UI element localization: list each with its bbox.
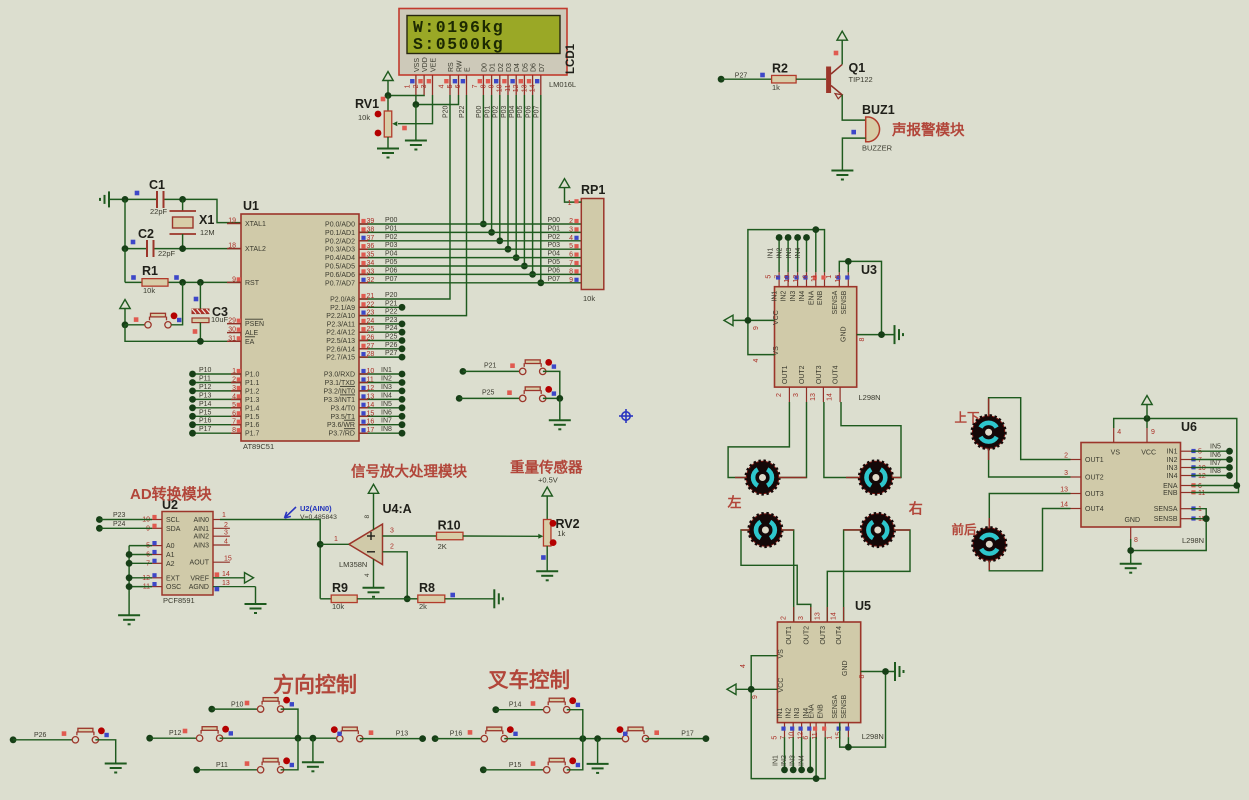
U3 OUT pin stubs bbox=[776, 387, 840, 402]
power terminal RP1 pin 1 bbox=[559, 179, 581, 207]
svg-text:IN1: IN1 bbox=[772, 291, 779, 302]
svg-text:6: 6 bbox=[803, 736, 810, 740]
ground for RV2 bbox=[536, 571, 558, 580]
svg-text:1: 1 bbox=[334, 536, 338, 543]
wire net P22 E bbox=[359, 95, 467, 316]
button P25 bbox=[459, 386, 563, 402]
svg-text:10k: 10k bbox=[583, 294, 595, 303]
svg-text:5: 5 bbox=[772, 736, 779, 740]
svg-text:4: 4 bbox=[364, 573, 371, 577]
svg-text:R2: R2 bbox=[772, 62, 788, 76]
wire C1 row bbox=[109, 196, 241, 223]
svg-text:P04: P04 bbox=[548, 251, 561, 258]
svg-text:AIN2: AIN2 bbox=[193, 534, 209, 541]
svg-text:P05: P05 bbox=[548, 259, 561, 266]
ground for forklift buttons bbox=[587, 739, 609, 773]
svg-text:10: 10 bbox=[784, 275, 791, 283]
motor right lower bbox=[861, 513, 895, 547]
button P11 bbox=[197, 738, 298, 773]
button P16 bbox=[435, 726, 625, 742]
svg-text:OUT3: OUT3 bbox=[816, 365, 823, 384]
svg-text:VCC: VCC bbox=[778, 678, 785, 693]
svg-text:OUT4: OUT4 bbox=[1085, 506, 1104, 513]
svg-text:P21: P21 bbox=[385, 300, 398, 307]
svg-text:P06: P06 bbox=[385, 267, 398, 274]
svg-text:P3.6/WR: P3.6/WR bbox=[327, 422, 355, 429]
U1 P0 port wires to RP1 bbox=[359, 217, 581, 225]
wire LCD D0 to net P00 bbox=[476, 95, 487, 227]
svg-text:3: 3 bbox=[1064, 470, 1068, 477]
svg-text:VS: VS bbox=[778, 649, 785, 659]
svg-text:声报警模块: 声报警模块 bbox=[891, 121, 965, 139]
svg-text:4: 4 bbox=[569, 235, 573, 242]
svg-text:X1: X1 bbox=[199, 213, 214, 227]
svg-text:IN8: IN8 bbox=[1210, 468, 1221, 475]
wire Q1 emitter to BUZ1 bbox=[842, 95, 866, 120]
svg-text:GND: GND bbox=[1124, 517, 1140, 524]
wire U6 OUT4 to front-back motor bbox=[989, 509, 1070, 571]
wire U5 OUT2 to left lower motor bbox=[741, 530, 811, 622]
svg-text:3: 3 bbox=[798, 616, 805, 620]
motor right upper bbox=[859, 461, 893, 495]
wire C2 row bbox=[122, 199, 241, 252]
wire buttons to ground bbox=[559, 398, 561, 420]
svg-text:LCD1: LCD1 bbox=[565, 43, 577, 74]
svg-text:GND: GND bbox=[842, 660, 849, 676]
svg-text:2: 2 bbox=[390, 544, 394, 551]
svg-text:7: 7 bbox=[472, 84, 479, 88]
svg-text:P07: P07 bbox=[385, 276, 398, 283]
svg-text:L298N: L298N bbox=[859, 393, 881, 402]
svg-text:IN3: IN3 bbox=[786, 248, 793, 259]
U6 GND pin to ground bbox=[1127, 527, 1138, 564]
wire U6 OUT3 to front-back motor bbox=[989, 494, 1070, 528]
svg-text:P14: P14 bbox=[509, 701, 522, 708]
svg-text:OUT2: OUT2 bbox=[799, 365, 806, 384]
driver U6 L298N bbox=[1081, 420, 1204, 545]
svg-text:P1.7: P1.7 bbox=[245, 431, 260, 438]
svg-text:P1.5: P1.5 bbox=[245, 414, 260, 421]
svg-text:3: 3 bbox=[421, 84, 428, 88]
svg-text:1: 1 bbox=[568, 200, 572, 207]
svg-text:9: 9 bbox=[1151, 429, 1155, 436]
motor up-down bbox=[972, 415, 1006, 449]
svg-text:10: 10 bbox=[789, 732, 796, 740]
svg-text:12: 12 bbox=[793, 275, 800, 283]
svg-text:A2: A2 bbox=[166, 561, 175, 568]
net terminal P14 bbox=[492, 701, 521, 713]
svg-text:P06: P06 bbox=[525, 105, 532, 118]
svg-text:P2.0/A8: P2.0/A8 bbox=[330, 297, 355, 304]
wire LCD D3 to net P03 bbox=[501, 95, 512, 253]
wire R1 row bbox=[125, 249, 241, 286]
svg-text:U3: U3 bbox=[861, 263, 877, 277]
svg-text:P1.0: P1.0 bbox=[245, 372, 260, 379]
net terminal P23 bbox=[96, 512, 152, 523]
net terminal P24 bbox=[96, 521, 152, 532]
svg-text:P17: P17 bbox=[681, 730, 694, 737]
svg-text:P04: P04 bbox=[385, 251, 398, 258]
U3 VCC pin wire bbox=[733, 317, 775, 363]
capacitor C3 10uF bbox=[192, 282, 229, 341]
button P13 bbox=[331, 726, 423, 742]
svg-text:L298N: L298N bbox=[862, 732, 884, 741]
svg-text:14: 14 bbox=[1060, 502, 1068, 509]
svg-text:2: 2 bbox=[413, 84, 420, 88]
svg-text:4: 4 bbox=[1117, 429, 1121, 436]
svg-text:P05: P05 bbox=[385, 259, 398, 266]
wire U2 AIN0 to opamp bbox=[220, 520, 324, 599]
svg-text:P0.6/AD6: P0.6/AD6 bbox=[325, 272, 355, 279]
svg-text:IN1: IN1 bbox=[768, 248, 775, 259]
wire LCD D7 to net P07 bbox=[534, 95, 545, 286]
svg-text:U2(AIN0): U2(AIN0) bbox=[300, 504, 332, 513]
svg-text:P25: P25 bbox=[385, 334, 398, 341]
net terminal P17 bbox=[681, 730, 709, 742]
svg-text:P3.4/T0: P3.4/T0 bbox=[330, 405, 355, 412]
net terminal P12 bbox=[146, 730, 181, 742]
power terminal Q1 collector bbox=[834, 31, 848, 64]
svg-text:C2: C2 bbox=[138, 227, 154, 241]
svg-text:P3.3/INT1: P3.3/INT1 bbox=[323, 397, 355, 404]
svg-text:P23: P23 bbox=[113, 512, 126, 519]
svg-text:P1.1: P1.1 bbox=[245, 380, 260, 387]
wire VSS RW tie bbox=[413, 95, 459, 108]
svg-text:IN1: IN1 bbox=[381, 367, 392, 374]
net terminal P27 bbox=[718, 72, 748, 82]
svg-text:P03: P03 bbox=[385, 242, 398, 249]
svg-text:P00: P00 bbox=[476, 105, 483, 118]
resistor R9 10k bbox=[320, 581, 407, 611]
U4 power pin 8 bbox=[364, 484, 379, 529]
ground for RV1 bbox=[377, 149, 399, 158]
svg-text:IN4: IN4 bbox=[798, 755, 805, 766]
svg-text:BUZZER: BUZZER bbox=[862, 144, 893, 153]
svg-text:P0.2/AD2: P0.2/AD2 bbox=[325, 238, 355, 245]
button P17 bbox=[617, 726, 706, 742]
svg-text:4: 4 bbox=[740, 664, 747, 668]
svg-text:P02: P02 bbox=[548, 234, 561, 241]
svg-text:12: 12 bbox=[1198, 473, 1206, 480]
U2 AGND to ground bbox=[213, 580, 256, 604]
svg-text:5: 5 bbox=[1198, 449, 1202, 456]
ground terminal left of C1 bbox=[100, 191, 109, 207]
wire U3 SENSA SENSB to GND bbox=[839, 258, 881, 335]
svg-text:RP1: RP1 bbox=[581, 183, 605, 197]
svg-text:2: 2 bbox=[1064, 453, 1068, 460]
svg-text:5: 5 bbox=[766, 275, 773, 279]
svg-text:9: 9 bbox=[753, 326, 760, 330]
power terminal reset bbox=[120, 300, 130, 329]
svg-text:2: 2 bbox=[776, 393, 783, 397]
svg-text:U4:A: U4:A bbox=[383, 502, 412, 516]
ground for U3 bbox=[895, 325, 904, 344]
svg-text:P03: P03 bbox=[548, 242, 561, 249]
motor terminal stubs bbox=[735, 399, 989, 571]
wire U3 OUT2 to left motor bbox=[779, 402, 807, 478]
svg-text:1: 1 bbox=[827, 736, 834, 740]
svg-text:P2.4/A12: P2.4/A12 bbox=[326, 330, 355, 337]
svg-text:12: 12 bbox=[513, 84, 520, 92]
power terminal U6 VCC bbox=[1142, 396, 1152, 419]
wire U3 OUT1 to left motor bbox=[728, 402, 789, 478]
svg-text:P24: P24 bbox=[113, 521, 126, 528]
motor left lower bbox=[749, 513, 783, 547]
resistor pack RP1 10k bbox=[581, 183, 605, 303]
origin marker bbox=[619, 409, 633, 423]
svg-text:P0.1/AD1: P0.1/AD1 bbox=[325, 230, 355, 237]
svg-text:15: 15 bbox=[835, 275, 842, 283]
svg-text:P01: P01 bbox=[484, 105, 491, 118]
svg-text:2k: 2k bbox=[419, 602, 427, 611]
svg-text:8: 8 bbox=[1134, 537, 1138, 544]
svg-text:R1: R1 bbox=[142, 264, 158, 278]
wire opamp output pin 1 bbox=[320, 536, 349, 544]
wire BUZ1 to ground bbox=[842, 138, 865, 170]
svg-text:IN4: IN4 bbox=[1167, 473, 1178, 480]
svg-text:VCC: VCC bbox=[773, 310, 780, 325]
svg-text:D2: D2 bbox=[498, 63, 505, 72]
wire U6 VS VCC to power and ENA ENB bbox=[1114, 415, 1237, 485]
U3 top pin stubs bbox=[766, 272, 850, 287]
button P15 bbox=[483, 739, 583, 773]
svg-text:P21: P21 bbox=[484, 363, 497, 370]
wire LCD D5 to net P05 bbox=[517, 95, 528, 269]
svg-text:P1.6: P1.6 bbox=[245, 422, 260, 429]
svg-text:右: 右 bbox=[908, 501, 923, 517]
ground for P26 button bbox=[105, 764, 127, 773]
svg-text:P22: P22 bbox=[459, 105, 466, 118]
svg-text:RS: RS bbox=[448, 62, 455, 72]
svg-text:LM358N: LM358N bbox=[339, 560, 367, 569]
net terminal P13 bbox=[396, 730, 426, 742]
label RV1 bbox=[355, 97, 407, 137]
svg-text:D4: D4 bbox=[514, 63, 521, 72]
wire opamp inverting input pin 2 bbox=[383, 544, 411, 603]
resistor R10 2K bbox=[437, 519, 542, 551]
svg-text:VSS: VSS bbox=[414, 58, 421, 72]
svg-text:P16: P16 bbox=[450, 730, 463, 737]
svg-text:SENSB: SENSB bbox=[841, 290, 848, 314]
LCD1 pin stubs and numbers bbox=[405, 75, 541, 95]
svg-text:P06: P06 bbox=[548, 267, 561, 274]
U1 P1 port wires to nets P10-P17 bbox=[189, 367, 241, 377]
svg-text:D3: D3 bbox=[506, 63, 513, 72]
svg-text:P17: P17 bbox=[199, 426, 212, 433]
svg-text:P02: P02 bbox=[385, 234, 398, 241]
svg-text:U1: U1 bbox=[243, 199, 259, 213]
wire U5 OUT1 to left lower motor bbox=[782, 530, 794, 622]
svg-text:7: 7 bbox=[780, 736, 787, 740]
svg-text:14: 14 bbox=[827, 393, 834, 401]
svg-text:15: 15 bbox=[835, 732, 842, 740]
svg-text:P13: P13 bbox=[199, 392, 212, 399]
svg-text:2: 2 bbox=[781, 616, 788, 620]
svg-text:13: 13 bbox=[222, 580, 230, 587]
svg-text:P01: P01 bbox=[385, 225, 398, 232]
svg-text:P27: P27 bbox=[735, 72, 748, 79]
button P12 bbox=[150, 726, 340, 742]
svg-text:5: 5 bbox=[569, 243, 573, 250]
svg-text:6: 6 bbox=[1198, 483, 1202, 490]
wire net P20 RS bbox=[359, 95, 450, 299]
svg-text:AOUT: AOUT bbox=[190, 560, 210, 567]
net terminal P25 bbox=[456, 390, 495, 402]
svg-text:IN2: IN2 bbox=[781, 755, 788, 766]
svg-text:12M: 12M bbox=[200, 228, 215, 237]
svg-text:8: 8 bbox=[364, 515, 371, 519]
LCD display LCD1 LM016L bbox=[399, 9, 567, 76]
svg-text:6: 6 bbox=[569, 252, 573, 259]
svg-text:P1.2: P1.2 bbox=[245, 388, 260, 395]
svg-text:P03: P03 bbox=[501, 105, 508, 118]
svg-text:P00: P00 bbox=[385, 217, 398, 224]
svg-text:TIP122: TIP122 bbox=[849, 75, 873, 84]
svg-text:P07: P07 bbox=[534, 105, 541, 118]
svg-text:13: 13 bbox=[814, 612, 821, 620]
svg-text:IN2: IN2 bbox=[1167, 457, 1178, 464]
svg-text:ENB: ENB bbox=[817, 290, 824, 305]
svg-text:IN7: IN7 bbox=[1210, 460, 1221, 467]
svg-text:P26: P26 bbox=[34, 732, 47, 739]
ground terminal right of R8 bbox=[494, 589, 503, 608]
net terminal P16 bbox=[432, 730, 463, 742]
U6 top pins VS VCC bbox=[1114, 428, 1155, 443]
svg-text:4: 4 bbox=[439, 84, 446, 88]
svg-text:OUT1: OUT1 bbox=[1085, 457, 1104, 464]
svg-text:IN4: IN4 bbox=[381, 392, 392, 399]
svg-text:P26: P26 bbox=[385, 342, 398, 349]
U1 P3 port wires to nets IN1-IN8 bbox=[359, 367, 405, 377]
svg-text:P25: P25 bbox=[482, 390, 495, 397]
svg-text:OUT2: OUT2 bbox=[1085, 475, 1104, 482]
svg-text:4: 4 bbox=[224, 539, 228, 546]
svg-text:8: 8 bbox=[480, 84, 487, 88]
svg-text:7: 7 bbox=[1198, 457, 1202, 464]
wire U3 ENA ENB tie to VCC bbox=[748, 226, 825, 354]
svg-text:P04: P04 bbox=[509, 105, 516, 118]
svg-text:IN5: IN5 bbox=[1210, 444, 1221, 451]
power terminal U5 VCC bbox=[727, 684, 736, 694]
adc U2 PCF8591 bbox=[162, 498, 213, 605]
svg-text:P27: P27 bbox=[385, 350, 398, 357]
svg-text:OUT2: OUT2 bbox=[803, 626, 810, 645]
U5 VCC pin wire bbox=[736, 664, 777, 699]
button P14 bbox=[496, 697, 583, 738]
svg-text:9: 9 bbox=[752, 695, 759, 699]
svg-text:V=0.485843: V=0.485843 bbox=[300, 514, 337, 521]
svg-text:A0: A0 bbox=[166, 543, 175, 550]
svg-text:AIN1: AIN1 bbox=[193, 526, 209, 533]
svg-text:P0.3/AD3: P0.3/AD3 bbox=[325, 247, 355, 254]
svg-text:10k: 10k bbox=[143, 286, 155, 295]
net terminal P10 bbox=[208, 702, 243, 713]
svg-text:P2.1/A9: P2.1/A9 bbox=[330, 305, 355, 312]
svg-text:OUT4: OUT4 bbox=[836, 626, 843, 645]
voltage probe U2(AIN0) bbox=[285, 504, 338, 521]
svg-text:S:0500kg: S:0500kg bbox=[413, 35, 504, 54]
svg-text:SENSA: SENSA bbox=[832, 290, 839, 314]
capacitor C2 22pF bbox=[131, 227, 176, 258]
power terminal RV2 +0.5V bbox=[538, 476, 558, 520]
svg-text:OSC: OSC bbox=[166, 584, 181, 591]
button P10 bbox=[212, 697, 298, 739]
U5 IN1-IN4 net terminals bbox=[773, 737, 814, 773]
svg-text:IN1: IN1 bbox=[777, 708, 784, 719]
svg-text:SCL: SCL bbox=[166, 517, 180, 524]
svg-text:IN8: IN8 bbox=[381, 426, 392, 433]
button P26 bbox=[13, 727, 116, 763]
svg-text:ENA: ENA bbox=[1163, 483, 1178, 490]
svg-text:P23: P23 bbox=[385, 317, 398, 324]
svg-text:R8: R8 bbox=[419, 581, 435, 595]
capacitor C1 22pF bbox=[135, 178, 168, 216]
wire U2 address pins to ground bbox=[126, 546, 152, 616]
svg-text:7: 7 bbox=[569, 260, 573, 267]
svg-text:P12: P12 bbox=[199, 384, 212, 391]
svg-text:P02: P02 bbox=[493, 105, 500, 118]
wire VDD to RV1 top bbox=[385, 92, 425, 99]
svg-text:L298N: L298N bbox=[1182, 536, 1204, 545]
potentiometer RV2 1k bbox=[538, 517, 580, 571]
svg-text:D7: D7 bbox=[539, 63, 546, 72]
wire U3 GND to ground bbox=[857, 331, 894, 341]
ground for direction buttons bbox=[302, 738, 324, 771]
svg-text:P15: P15 bbox=[509, 762, 522, 769]
svg-text:P12: P12 bbox=[169, 730, 182, 737]
svg-text:VS: VS bbox=[1111, 450, 1121, 457]
svg-text:D6: D6 bbox=[531, 63, 538, 72]
svg-text:IN2: IN2 bbox=[781, 291, 788, 302]
svg-text:2K: 2K bbox=[438, 542, 447, 551]
U5 OUT pin stubs bbox=[781, 607, 844, 622]
wire LCD D4 to net P04 bbox=[509, 95, 520, 261]
wire U6 SENSA SENSB to GND bbox=[1131, 509, 1210, 551]
svg-text:ENB: ENB bbox=[1163, 490, 1178, 497]
svg-text:P20: P20 bbox=[385, 292, 398, 299]
driver U5 L298N bbox=[777, 599, 884, 741]
svg-text:ENB: ENB bbox=[818, 704, 825, 719]
svg-text:P1.4: P1.4 bbox=[245, 405, 260, 412]
svg-text:RV1: RV1 bbox=[355, 97, 379, 111]
svg-text:6: 6 bbox=[455, 84, 462, 88]
wire U5 OUT4 to right lower motor bbox=[844, 530, 862, 622]
svg-text:AD转换模块: AD转换模块 bbox=[130, 485, 213, 503]
svg-text:P14: P14 bbox=[199, 401, 212, 408]
svg-text:P2.5/A13: P2.5/A13 bbox=[326, 338, 355, 345]
svg-text:SDA: SDA bbox=[166, 526, 181, 533]
svg-text:SENSB: SENSB bbox=[841, 695, 848, 719]
svg-text:2: 2 bbox=[224, 522, 228, 529]
svg-text:P3.7/RD: P3.7/RD bbox=[329, 431, 355, 438]
wire EA row bbox=[125, 325, 241, 345]
svg-text:11: 11 bbox=[1198, 490, 1205, 497]
svg-text:叉车控制: 叉车控制 bbox=[487, 668, 570, 692]
svg-text:1: 1 bbox=[405, 84, 412, 88]
svg-text:10: 10 bbox=[497, 84, 504, 92]
svg-text:A1: A1 bbox=[166, 552, 175, 559]
net terminal P15 bbox=[480, 762, 522, 773]
svg-text:14: 14 bbox=[530, 84, 537, 92]
svg-text:ENA: ENA bbox=[808, 290, 815, 305]
wire opamp noninverting input pin 3 bbox=[383, 528, 437, 537]
svg-text:ENA: ENA bbox=[809, 704, 816, 719]
svg-text:RW: RW bbox=[457, 60, 464, 72]
svg-text:3: 3 bbox=[793, 393, 800, 397]
svg-text:OUT3: OUT3 bbox=[1085, 491, 1104, 498]
svg-text:IN1: IN1 bbox=[1167, 449, 1178, 456]
svg-text:IN7: IN7 bbox=[381, 418, 392, 425]
